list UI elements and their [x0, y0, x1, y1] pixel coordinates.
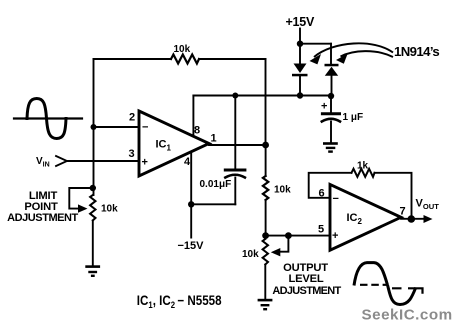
svg-text:10k: 10k — [101, 204, 118, 215]
svg-text:SeekIC.com: SeekIC.com — [362, 307, 453, 324]
svg-text:6: 6 — [319, 188, 325, 200]
svg-text:10k: 10k — [242, 249, 259, 260]
svg-text:ADJUSTMENT: ADJUSTMENT — [7, 212, 78, 224]
svg-text:OUTPUT: OUTPUT — [283, 262, 328, 274]
svg-text:+: + — [142, 157, 148, 169]
svg-text:7: 7 — [400, 206, 406, 218]
svg-text:−: − — [333, 193, 339, 205]
svg-text:4: 4 — [184, 156, 191, 168]
svg-text:−: − — [142, 122, 148, 134]
svg-text:10k: 10k — [274, 185, 291, 196]
svg-text:8: 8 — [194, 125, 200, 137]
svg-text:ADJUSTMENT: ADJUSTMENT — [272, 285, 341, 297]
svg-text:0.01μF: 0.01μF — [200, 179, 232, 190]
svg-text:1: 1 — [211, 133, 217, 145]
svg-text:1k: 1k — [357, 161, 369, 172]
svg-text:10k: 10k — [174, 44, 191, 55]
svg-text:5: 5 — [318, 224, 324, 236]
svg-text:+: + — [332, 230, 338, 242]
svg-text:+: + — [321, 101, 327, 113]
svg-text:3: 3 — [129, 148, 135, 160]
svg-text:LEVEL: LEVEL — [288, 273, 323, 285]
svg-text:1 μF: 1 μF — [343, 112, 364, 123]
svg-text:−15V: −15V — [178, 240, 205, 252]
svg-text:2: 2 — [129, 112, 135, 124]
svg-text:1N914’s: 1N914’s — [394, 44, 439, 59]
svg-text:+15V: +15V — [286, 15, 315, 29]
